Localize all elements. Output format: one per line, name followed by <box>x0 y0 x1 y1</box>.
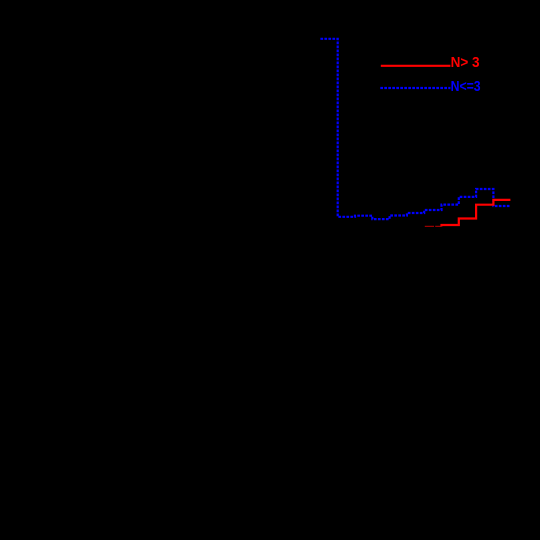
curve N> 3 first faint segment (red thin) <box>425 225 442 227</box>
legend line for N> 3 <box>381 65 451 67</box>
svg-text:N> 3: N> 3 <box>451 54 480 71</box>
svg-text:N<=3: N<=3 <box>451 78 481 95</box>
legend line for N<=3 <box>380 87 450 89</box>
curve N> 3 (red solid step histogram) <box>442 200 511 227</box>
curve N<=3 (blue dashed step histogram) <box>320 39 510 219</box>
